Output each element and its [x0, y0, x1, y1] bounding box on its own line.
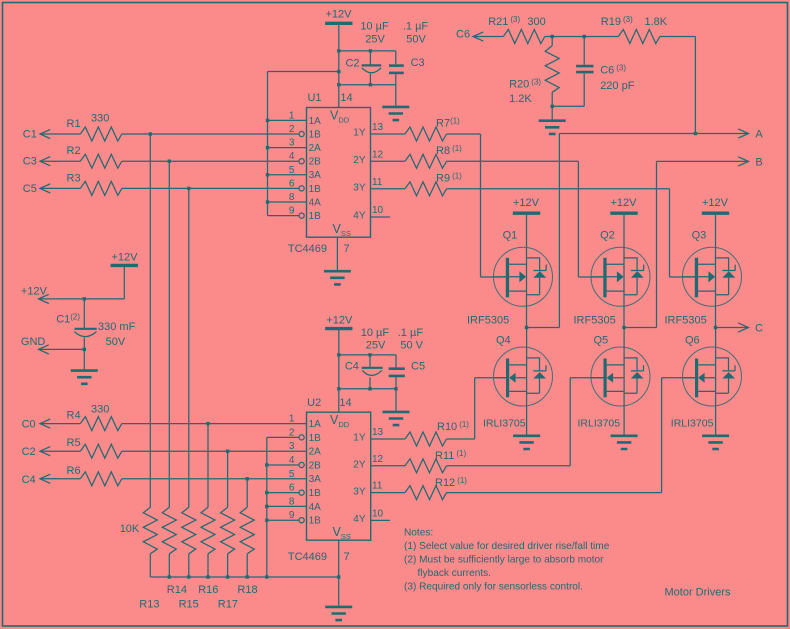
svg-text:12: 12: [372, 149, 384, 160]
svg-text:10 µF: 10 µF: [361, 327, 390, 339]
svg-text:1B: 1B: [309, 211, 322, 222]
svg-text:R13: R13: [139, 598, 159, 610]
svg-text:50V: 50V: [106, 336, 126, 348]
svg-text:R1: R1: [67, 118, 81, 130]
svg-text:4A: 4A: [309, 502, 322, 513]
svg-text:5: 5: [289, 469, 295, 480]
svg-text:1B: 1B: [309, 129, 322, 140]
svg-text:IRLI3705: IRLI3705: [483, 418, 526, 430]
svg-text:7: 7: [343, 243, 349, 255]
svg-text:6: 6: [289, 483, 295, 494]
svg-text:50V: 50V: [406, 34, 426, 46]
svg-text:10 µF: 10 µF: [360, 21, 389, 33]
svg-text:4A: 4A: [309, 197, 322, 208]
svg-text:C2: C2: [345, 58, 359, 70]
svg-text:C5: C5: [23, 183, 37, 195]
svg-text:+12V: +12V: [702, 197, 729, 209]
svg-text:flyback currents.: flyback currents.: [418, 568, 492, 579]
svg-text:7: 7: [343, 551, 349, 563]
svg-text:C4: C4: [345, 361, 359, 373]
svg-text:Notes:: Notes:: [404, 528, 433, 539]
svg-text:R14: R14: [167, 584, 187, 596]
svg-text:1Y: 1Y: [353, 128, 366, 139]
svg-text:14: 14: [339, 397, 351, 409]
svg-text:TC4469: TC4469: [288, 551, 327, 563]
svg-text:Q1: Q1: [503, 230, 518, 242]
svg-text:3: 3: [289, 441, 295, 452]
svg-text:GND: GND: [21, 336, 46, 348]
svg-text:IRLI3705: IRLI3705: [578, 418, 621, 430]
svg-text:1Y: 1Y: [353, 433, 366, 444]
svg-text:8: 8: [289, 496, 295, 507]
svg-text:C0: C0: [22, 419, 36, 431]
svg-text:+12V: +12V: [326, 314, 353, 326]
svg-text:1.2K: 1.2K: [509, 93, 532, 105]
svg-text:Motor Drivers: Motor Drivers: [665, 587, 732, 599]
svg-text:R3: R3: [67, 172, 81, 184]
svg-text:13: 13: [372, 427, 384, 438]
svg-text:A: A: [755, 129, 763, 141]
svg-text:R18: R18: [237, 584, 257, 596]
svg-text:2B: 2B: [309, 460, 322, 471]
svg-text:2A: 2A: [309, 143, 322, 154]
svg-text:2Y: 2Y: [353, 155, 366, 166]
svg-text:14: 14: [340, 92, 352, 104]
svg-text:10: 10: [372, 205, 384, 216]
svg-text:2B: 2B: [309, 157, 322, 168]
svg-text:.1 µF: .1 µF: [398, 327, 424, 339]
svg-text:C: C: [755, 323, 763, 335]
svg-text:3Y: 3Y: [353, 183, 366, 194]
svg-text:B: B: [755, 157, 762, 169]
svg-text:R16: R16: [198, 584, 218, 596]
svg-text:3A: 3A: [309, 474, 322, 485]
svg-text:330: 330: [91, 404, 109, 416]
svg-text:+12V: +12V: [611, 197, 638, 209]
svg-text:2A: 2A: [309, 447, 322, 458]
svg-text:3Y: 3Y: [353, 486, 366, 497]
svg-text:C3: C3: [23, 156, 37, 168]
svg-text:R15: R15: [179, 598, 199, 610]
svg-text:C6: C6: [456, 29, 470, 41]
svg-text:330: 330: [91, 113, 109, 125]
svg-text:10K: 10K: [120, 523, 140, 535]
svg-text:R5: R5: [67, 437, 81, 449]
svg-text:25V: 25V: [366, 339, 386, 351]
svg-text:2Y: 2Y: [353, 460, 366, 471]
svg-text:C1: C1: [23, 129, 37, 141]
svg-text:C5: C5: [411, 361, 425, 373]
svg-text:11: 11: [372, 177, 383, 188]
svg-text:300: 300: [527, 16, 545, 28]
svg-text:6: 6: [289, 178, 295, 189]
svg-text:5: 5: [289, 165, 295, 176]
svg-text:13: 13: [372, 122, 384, 133]
svg-text:(3) Required only for sensorle: (3) Required only for sensorless control…: [404, 581, 583, 592]
svg-text:IRF5305: IRF5305: [467, 315, 509, 327]
svg-text:+12V: +12V: [513, 197, 540, 209]
svg-text:1B: 1B: [309, 433, 322, 444]
svg-text:4Y: 4Y: [353, 514, 366, 525]
svg-text:+12V: +12V: [326, 9, 353, 21]
svg-text:3: 3: [289, 138, 295, 149]
svg-text:IRF5305: IRF5305: [665, 315, 707, 327]
svg-text:C2: C2: [22, 446, 36, 458]
svg-text:Q6: Q6: [685, 335, 700, 347]
svg-text:C3: C3: [411, 57, 425, 69]
svg-text:10: 10: [372, 508, 384, 519]
svg-text:Q2: Q2: [600, 230, 615, 242]
svg-text:12: 12: [372, 454, 384, 465]
svg-text:.1 µF: .1 µF: [403, 21, 429, 33]
svg-text:+12V: +12V: [21, 286, 48, 298]
svg-text:U1: U1: [307, 92, 321, 104]
svg-text:+12V: +12V: [112, 251, 139, 263]
svg-text:IRLI3705: IRLI3705: [671, 418, 714, 430]
svg-text:1A: 1A: [309, 116, 322, 127]
svg-text:Q3: Q3: [692, 230, 707, 242]
svg-text:1B: 1B: [309, 488, 322, 499]
svg-text:11: 11: [372, 481, 383, 492]
svg-text:1B: 1B: [309, 516, 322, 527]
svg-text:R17: R17: [218, 598, 238, 610]
svg-text:(1) Select value for desired d: (1) Select value for desired driver rise…: [404, 541, 610, 552]
svg-text:R2: R2: [67, 145, 81, 157]
svg-text:4Y: 4Y: [353, 211, 366, 222]
svg-text:1: 1: [289, 110, 295, 121]
svg-text:220 pF: 220 pF: [600, 80, 635, 92]
svg-text:4: 4: [289, 151, 295, 162]
svg-text:1A: 1A: [309, 419, 322, 430]
svg-text:2: 2: [289, 427, 295, 438]
svg-text:Q4: Q4: [496, 335, 511, 347]
svg-text:1B: 1B: [309, 184, 322, 195]
svg-text:4: 4: [289, 455, 295, 466]
svg-text:1.8K: 1.8K: [645, 16, 668, 28]
svg-text:(2) Must be sufficiently large: (2) Must be sufficiently large to absorb…: [404, 554, 604, 565]
svg-text:330 mF: 330 mF: [98, 321, 136, 333]
svg-text:1: 1: [289, 414, 295, 425]
svg-text:25V: 25V: [365, 34, 385, 46]
svg-text:U2: U2: [307, 397, 321, 409]
svg-text:TC4469: TC4469: [288, 243, 327, 255]
svg-text:Q5: Q5: [594, 335, 609, 347]
svg-text:50 V: 50 V: [400, 339, 423, 351]
svg-text:R4: R4: [67, 410, 81, 422]
svg-text:9: 9: [289, 510, 295, 521]
svg-text:8: 8: [289, 192, 295, 203]
svg-text:C4: C4: [22, 474, 36, 486]
svg-text:3A: 3A: [309, 170, 322, 181]
svg-text:9: 9: [289, 206, 295, 217]
svg-text:2: 2: [289, 124, 295, 135]
svg-text:R6: R6: [67, 465, 81, 477]
svg-text:IRF5305: IRF5305: [574, 315, 616, 327]
